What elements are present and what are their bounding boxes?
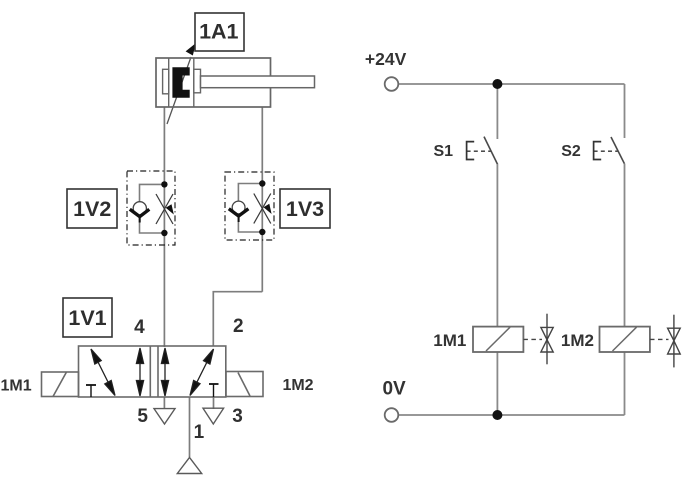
svg-text:5: 5 bbox=[137, 406, 148, 427]
svg-text:1M2: 1M2 bbox=[282, 377, 313, 394]
svg-text:1M1: 1M1 bbox=[1, 377, 32, 394]
svg-text:0V: 0V bbox=[382, 379, 406, 400]
svg-text:1V3: 1V3 bbox=[286, 197, 324, 221]
svg-text:4: 4 bbox=[134, 317, 145, 338]
svg-text:+24V: +24V bbox=[365, 49, 407, 69]
svg-text:S1: S1 bbox=[434, 143, 454, 160]
svg-text:1A1: 1A1 bbox=[199, 20, 238, 44]
svg-text:S2: S2 bbox=[561, 143, 581, 160]
svg-text:3: 3 bbox=[232, 406, 243, 427]
svg-text:2: 2 bbox=[233, 316, 244, 337]
svg-text:1V2: 1V2 bbox=[73, 197, 111, 221]
svg-text:1: 1 bbox=[194, 422, 205, 443]
svg-text:1M1: 1M1 bbox=[433, 331, 466, 350]
svg-text:1M2: 1M2 bbox=[561, 331, 594, 350]
svg-text:1V1: 1V1 bbox=[68, 306, 106, 330]
